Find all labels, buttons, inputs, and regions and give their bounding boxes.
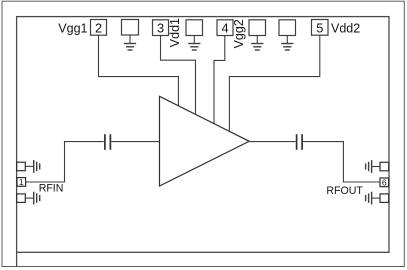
ground (rotated left) [366,160,380,173]
svg-text:RFIN: RFIN [39,183,64,195]
wire cap to amp input [111,141,159,143]
svg-text:4: 4 [221,21,228,36]
wire pin2 to amp [99,35,179,105]
svg-text:RFOUT: RFOUT [326,185,363,197]
pin 1 box [17,178,26,187]
RF pad (left top) [17,162,26,171]
capacitor C2 [297,134,303,150]
ground [251,36,263,51]
wire pin4 to amp [214,36,225,124]
ground [124,35,136,50]
svg-text:Vdd1: Vdd1 [168,18,182,47]
pad 5 [312,20,329,36]
svg-text:6: 6 [382,178,387,188]
svg-text:Vgg2: Vgg2 [232,19,246,48]
RF pad (right bottom) [380,194,389,203]
pad 4 [217,20,233,36]
svg-text:Vgg1: Vgg1 [58,21,87,35]
op-amp U1 [160,96,250,186]
ground [281,36,293,51]
ground pad (top 1) [122,20,139,36]
svg-text:3: 3 [157,21,164,36]
svg-text:2: 2 [95,20,102,35]
wire cap to RFOUT [303,142,380,182]
pin 6 box [380,178,389,187]
svg-text:1: 1 [19,177,24,187]
ground [188,36,200,51]
svg-text:5: 5 [316,20,323,35]
wire pin5 to amp [229,35,319,131]
capacitor C1 [105,134,111,150]
wire RFIN to cap [26,142,104,182]
ground pad (top 4) [279,20,296,36]
ground pad (top 3) [249,20,266,36]
pad 2 [91,20,107,36]
RF pad (left bottom) [17,194,26,203]
ground (rotated right) [25,192,39,205]
RF pad (right top) [380,162,389,171]
wire amp output to cap [249,141,295,143]
ground (rotated right) [25,160,39,173]
svg-text:Vdd2: Vdd2 [331,21,360,35]
ground pad (top 2) [186,20,203,36]
wire pin3 to amp [161,36,196,115]
ground (rotated left) [366,192,380,205]
pad 3 [153,20,169,36]
